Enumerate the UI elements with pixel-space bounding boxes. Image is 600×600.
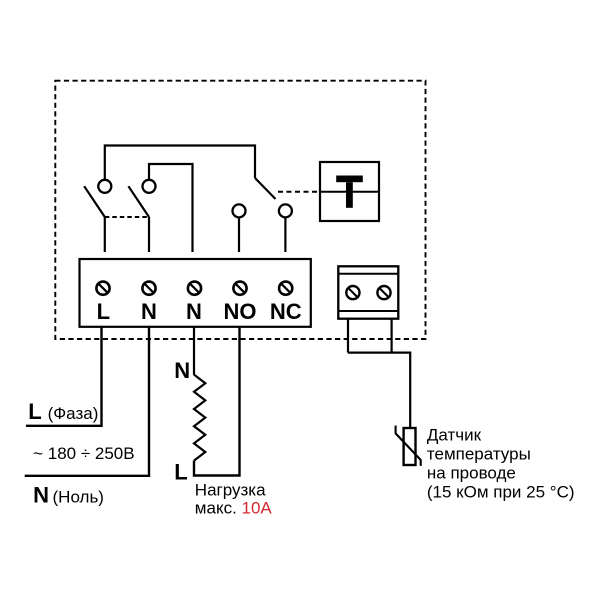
svg-text:Датчик: Датчик xyxy=(427,426,482,445)
terminal block X1 xyxy=(80,259,311,327)
thermistor (temperature sensor) xyxy=(396,426,421,466)
wire: load bottom to terminal NO xyxy=(194,327,240,476)
wire: sensor cable right lead xyxy=(391,319,393,353)
svg-text:(15 кОм при 25 °С): (15 кОм при 25 °С) xyxy=(427,483,575,502)
svg-text:N: N xyxy=(141,299,157,324)
wire: sensor cable left lead xyxy=(347,319,349,353)
svg-text:(Фаза): (Фаза) xyxy=(48,404,99,423)
enclosure (dashed device outline) xyxy=(55,81,425,339)
svg-text:макс. 10А: макс. 10А xyxy=(195,499,273,518)
screw terminal 3 (N) xyxy=(188,282,201,295)
label Датчик температуры на проводе (15 кОм при 25 °С) xyxy=(427,426,575,502)
svg-text:N: N xyxy=(186,299,202,324)
resistor (load) xyxy=(194,375,205,461)
wire: NC contact to terminal NC xyxy=(284,218,286,252)
screw terminal 2 (N) xyxy=(142,282,155,295)
sensor terminal block X2 xyxy=(338,266,398,318)
switch S2 blade xyxy=(128,186,149,217)
screw sensor terminal 1 xyxy=(346,286,359,299)
svg-text:Нагрузка: Нагрузка xyxy=(195,480,266,499)
svg-text:~ 180 ÷ 250В: ~ 180 ÷ 250В xyxy=(33,444,135,463)
contact circle (switch S2 fixed contact) xyxy=(143,180,156,193)
svg-text:температуры: температуры xyxy=(427,445,531,464)
wire: terminal L to mains L xyxy=(26,327,102,426)
screw terminal 4 (NO) xyxy=(233,282,246,295)
wire: S2 blade to terminal N xyxy=(148,217,150,252)
svg-text:NC: NC xyxy=(270,299,302,324)
svg-text:L: L xyxy=(174,460,187,485)
svg-text:N: N xyxy=(174,358,190,383)
contact circle NO xyxy=(233,204,246,217)
screw terminal 5 (NC) xyxy=(279,282,292,295)
screw sensor terminal 2 xyxy=(377,286,390,299)
mechanical link S3 to thermostat (dashed) xyxy=(278,191,320,193)
screw terminal 1 (L) xyxy=(96,282,109,295)
svg-text:L: L xyxy=(28,399,41,424)
svg-text:N: N xyxy=(33,483,49,508)
switch S1 blade xyxy=(84,186,105,217)
wire: S2 contact to terminal N2 xyxy=(149,164,193,252)
thermostat box T xyxy=(320,162,379,221)
wire: terminal N to mains N xyxy=(25,327,149,476)
wire: S1 blade to terminal L xyxy=(104,217,106,252)
switch S3 blade (changeover) xyxy=(255,178,276,199)
svg-text:NO: NO xyxy=(224,299,257,324)
wire: NO contact to terminal NO xyxy=(238,218,240,252)
contact circle (switch S1 fixed contact) xyxy=(98,180,111,193)
wire: terminal N2 down to load xyxy=(193,327,195,375)
svg-text:на проводе: на проводе xyxy=(427,464,516,483)
contact circle NC xyxy=(279,204,292,217)
svg-text:(Ноль): (Ноль) xyxy=(53,488,104,507)
svg-text:L: L xyxy=(97,299,110,324)
mechanical link S1-S2 (dashed) xyxy=(105,216,149,218)
wire: top rail from contact S1 to switch S3 pivot xyxy=(105,146,255,180)
wire: sensor cable to thermistor xyxy=(348,353,410,428)
